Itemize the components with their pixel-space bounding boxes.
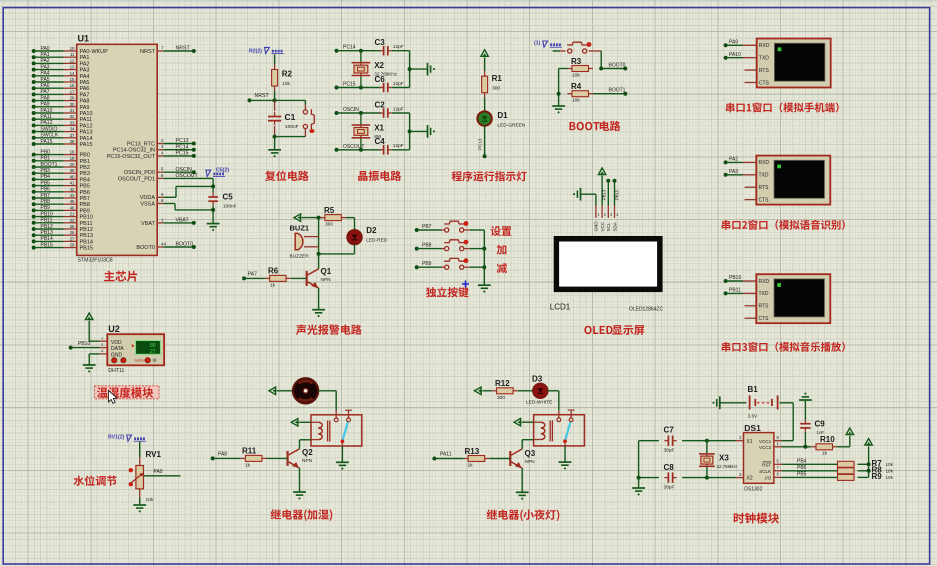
svg-text:PA15: PA15 bbox=[80, 142, 93, 148]
svg-text:PB11: PB11 bbox=[729, 288, 741, 294]
wire rail to ground X2 bbox=[410, 68, 428, 70]
wire terminal to RV1 bbox=[139, 442, 141, 457]
svg-text:STM32F103C8: STM32F103C8 bbox=[78, 258, 113, 264]
capacitor C7 30pF bbox=[639, 425, 744, 453]
svg-text:12pF: 12pF bbox=[393, 81, 404, 87]
node C5(2) blue terminal bbox=[206, 167, 229, 176]
pin SWCLK (37) of U1 bbox=[32, 133, 93, 142]
svg-text:PB6: PB6 bbox=[797, 465, 807, 471]
crystal X2 32.768KHz bbox=[352, 51, 398, 88]
svg-text:SWDIO: SWDIO bbox=[41, 126, 58, 132]
crystal X1 8M bbox=[352, 113, 385, 150]
svg-text:LED-GREEN: LED-GREEN bbox=[497, 123, 526, 129]
svg-text:PB9: PB9 bbox=[422, 261, 432, 267]
wire R10 to power bbox=[837, 436, 850, 447]
pin PC13 (2) of U1 right bbox=[127, 138, 196, 148]
pin labels GND VCC SCL SDA rotated bbox=[594, 221, 618, 232]
svg-text:8: 8 bbox=[161, 198, 164, 203]
pin PA2 (12) of U1 bbox=[32, 58, 90, 67]
label OLED显示屏 bbox=[584, 325, 644, 335]
svg-text:R10: R10 bbox=[820, 435, 835, 444]
svg-text:OSCOUT: OSCOUT bbox=[176, 173, 199, 179]
label 复位电路 bbox=[265, 170, 309, 180]
ground below C5 bbox=[207, 224, 220, 231]
svg-text:(1): (1) bbox=[534, 41, 541, 47]
svg-text:PB7: PB7 bbox=[41, 193, 51, 199]
pin PB6 (42) of U1 bbox=[32, 187, 90, 196]
svg-text:PB15: PB15 bbox=[615, 189, 620, 200]
svg-text:17: 17 bbox=[70, 89, 75, 94]
wire RV1 to ground bbox=[139, 498, 141, 506]
svg-text:PB13: PB13 bbox=[602, 189, 607, 200]
relay RL2 body bbox=[534, 410, 585, 446]
svg-text:CTS: CTS bbox=[759, 316, 770, 322]
motor humidifier symbol bbox=[293, 378, 318, 403]
wire C6 to right rail bbox=[392, 67, 412, 87]
transistor Q2 NPN bbox=[288, 448, 314, 468]
svg-text:10: 10 bbox=[70, 46, 75, 51]
svg-text:13: 13 bbox=[70, 65, 75, 70]
svg-text:29: 29 bbox=[70, 96, 75, 101]
svg-text:RTS: RTS bbox=[759, 185, 770, 191]
buzzer BUZ1 bbox=[290, 218, 319, 260]
wire ground to B1 bbox=[720, 402, 747, 404]
power arrow above R10 bbox=[846, 428, 853, 436]
svg-text:C2: C2 bbox=[375, 100, 386, 109]
svg-text:PA11: PA11 bbox=[41, 114, 53, 120]
svg-text:PA4: PA4 bbox=[41, 71, 50, 77]
power arrow above U2 bbox=[86, 313, 93, 321]
svg-text:C5(2): C5(2) bbox=[216, 167, 229, 173]
svg-text:PB9: PB9 bbox=[41, 205, 51, 211]
svg-text:SWCLK: SWCLK bbox=[41, 133, 59, 139]
svg-text:R12: R12 bbox=[495, 379, 510, 388]
wire OSCOUT row bbox=[337, 148, 382, 152]
svg-text:46: 46 bbox=[70, 205, 75, 210]
svg-text:X1: X1 bbox=[747, 439, 753, 445]
svg-text:NRST: NRST bbox=[255, 93, 270, 99]
svg-text:C8: C8 bbox=[664, 463, 675, 472]
power arrow above R1 bbox=[481, 50, 488, 58]
node PC15 bbox=[335, 82, 356, 90]
pin PA15 (38) of U1 bbox=[32, 139, 93, 148]
svg-text:PB5: PB5 bbox=[80, 184, 90, 190]
pin RTS stub bbox=[745, 186, 757, 188]
svg-text:X1: X1 bbox=[374, 123, 384, 132]
svg-text:RXD: RXD bbox=[759, 279, 770, 285]
svg-text:PA11: PA11 bbox=[80, 117, 93, 123]
svg-text:PA8: PA8 bbox=[80, 99, 90, 105]
resistor R12 300 bbox=[483, 379, 518, 401]
wire Q1 emitter to ground bbox=[318, 288, 320, 310]
svg-text:VCC2: VCC2 bbox=[759, 445, 772, 450]
pin VSSA (8) of U1 bbox=[140, 198, 213, 210]
wire terminal to R2 bbox=[274, 55, 276, 65]
relay RL1 body bbox=[311, 410, 362, 446]
pin OSCOUT (6) of U1 right, wire to C5 node bbox=[118, 173, 213, 183]
svg-text:D1: D1 bbox=[497, 111, 508, 120]
ground above C9 (inverted) bbox=[799, 393, 812, 400]
pin PA9 (30) of U1 bbox=[32, 102, 90, 111]
pin VBAT (1) of U1 right bbox=[141, 217, 196, 227]
node PB7 bbox=[415, 224, 432, 232]
transistor Q3 NPN bbox=[510, 449, 535, 469]
svg-text:PA1: PA1 bbox=[80, 55, 90, 61]
pin PA7 (17) of U1 bbox=[32, 89, 90, 98]
node OSCIN bbox=[335, 107, 360, 115]
svg-text:PB14: PB14 bbox=[80, 239, 93, 245]
svg-text:DS1: DS1 bbox=[744, 423, 761, 433]
svg-text:10k: 10k bbox=[572, 72, 580, 78]
svg-text:C3: C3 bbox=[375, 38, 386, 47]
pin PB5 (41) of U1 bbox=[32, 180, 90, 189]
svg-text:GND: GND bbox=[594, 221, 599, 232]
svg-text:LED-RED: LED-RED bbox=[366, 238, 388, 244]
wire R5 to D2 bbox=[346, 218, 355, 230]
wire terminal to boot button bbox=[553, 50, 561, 52]
svg-text:PB10: PB10 bbox=[78, 341, 90, 347]
wire power to R1 bbox=[484, 58, 486, 71]
svg-text:43: 43 bbox=[70, 193, 75, 198]
node PB9 bbox=[415, 261, 432, 269]
svg-text:PB8: PB8 bbox=[422, 243, 432, 249]
svg-text:PB13: PB13 bbox=[80, 233, 93, 239]
svg-text:28: 28 bbox=[70, 243, 75, 248]
pin PB10 (21) of U1 bbox=[32, 211, 93, 220]
svg-text:Q3: Q3 bbox=[525, 449, 536, 458]
pin OSCIN (5) of U1 right bbox=[124, 167, 196, 177]
pin VDDA (9) of U1 bbox=[140, 186, 213, 201]
transistor Q1 NPN bbox=[307, 267, 332, 288]
svg-text:11: 11 bbox=[70, 52, 75, 57]
wire PB8 to button bbox=[417, 248, 445, 250]
op-amp U1 main chip STM32F103C8 body bbox=[77, 34, 158, 264]
svg-text:RXD: RXD bbox=[759, 43, 770, 49]
button BOOT (horizontal) bbox=[560, 42, 601, 53]
svg-text:19: 19 bbox=[70, 156, 75, 161]
wire power to R5 node bbox=[302, 216, 321, 220]
node NRST bbox=[248, 93, 277, 102]
wire C4 to right rail bbox=[392, 129, 412, 149]
svg-text:PB1: PB1 bbox=[80, 159, 90, 165]
wire left rail of clock bbox=[638, 441, 640, 488]
wire DS1 PB6 row bbox=[774, 465, 837, 471]
ground of buttons bbox=[478, 285, 491, 292]
svg-text:PB10: PB10 bbox=[80, 215, 93, 221]
svg-text:PB15: PB15 bbox=[80, 246, 93, 252]
label 晶振电路 bbox=[358, 171, 401, 181]
wire rail to ground X1 bbox=[410, 130, 428, 132]
svg-text:PC14: PC14 bbox=[343, 45, 356, 51]
node R2(2) blue terminal bbox=[249, 47, 284, 54]
wire button 2 to bus bbox=[464, 247, 486, 251]
pin PB1 (19) of U1 bbox=[32, 156, 90, 165]
svg-text:22: 22 bbox=[70, 218, 75, 223]
node PC14 bbox=[335, 45, 356, 53]
crystal X3 32.768kHz bbox=[699, 441, 738, 478]
node BOOT1 bbox=[593, 88, 627, 96]
diode D2 LED-RED bbox=[347, 226, 387, 244]
svg-text:14: 14 bbox=[70, 71, 75, 76]
svg-text:R13: R13 bbox=[465, 447, 480, 456]
svg-text:C7: C7 bbox=[664, 425, 675, 434]
svg-text:PB3: PB3 bbox=[41, 168, 51, 174]
svg-text:27: 27 bbox=[70, 236, 75, 241]
svg-text:X2: X2 bbox=[374, 61, 384, 70]
svg-text:R1: R1 bbox=[492, 74, 503, 83]
pin TXD wire PA10 bbox=[724, 52, 757, 60]
svg-text:300: 300 bbox=[497, 395, 505, 401]
diode D1 LED-GREEN bbox=[477, 111, 526, 128]
svg-text:R11: R11 bbox=[242, 447, 257, 456]
svg-text:30: 30 bbox=[70, 102, 75, 107]
svg-text:%RH: %RH bbox=[134, 358, 144, 363]
svg-text:NPN: NPN bbox=[302, 458, 313, 464]
svg-text:PC15-OSC32_OUT: PC15-OSC32_OUT bbox=[107, 154, 156, 160]
svg-text:20: 20 bbox=[70, 162, 75, 167]
svg-text:42: 42 bbox=[70, 187, 75, 192]
svg-text:TXD: TXD bbox=[759, 173, 769, 179]
svg-text:32.768kHz: 32.768kHz bbox=[717, 464, 738, 469]
svg-text:PA9: PA9 bbox=[41, 102, 50, 108]
pin PA5 (15) of U1 bbox=[32, 77, 90, 86]
svg-text:10k: 10k bbox=[886, 468, 894, 473]
capacitor C9 1nF bbox=[800, 400, 825, 447]
svg-text:3: 3 bbox=[739, 472, 742, 477]
svg-text:PA7: PA7 bbox=[248, 272, 257, 278]
power arrow left of relay RL2 coil bbox=[514, 419, 522, 426]
pin PB15 (28) of U1 bbox=[32, 242, 93, 251]
cursor mark bbox=[462, 281, 469, 288]
svg-text:VSSA: VSSA bbox=[140, 201, 155, 207]
label 继电器(小夜灯) bbox=[487, 509, 560, 521]
ground right of X2 bbox=[428, 63, 435, 76]
power arrow left of R5 bbox=[294, 214, 302, 221]
svg-text:PA10: PA10 bbox=[729, 52, 741, 58]
pin PA1 (11) of U1 bbox=[32, 52, 90, 61]
wire PB7 to button bbox=[417, 229, 445, 231]
wire PC14 row bbox=[337, 49, 382, 53]
capacitor C4 12pF bbox=[375, 137, 404, 154]
pin RTS stub bbox=[745, 305, 757, 307]
label 主芯片 bbox=[104, 271, 137, 282]
svg-text:PB4: PB4 bbox=[797, 459, 807, 465]
label 串口1窗口 bbox=[726, 102, 839, 112]
pin RXD wire PB10 bbox=[724, 275, 757, 283]
pin PB3 (39) of U1 bbox=[32, 168, 90, 177]
wire power to motor bbox=[277, 390, 293, 392]
svg-text:PA10: PA10 bbox=[41, 108, 53, 114]
svg-text:PA9: PA9 bbox=[729, 40, 738, 46]
pin PA10 (31) of U1 bbox=[32, 108, 93, 117]
svg-text:VCC: VCC bbox=[600, 221, 605, 231]
ground of Q3 bbox=[516, 492, 529, 499]
svg-text:SCL: SCL bbox=[606, 222, 611, 231]
wire DS1 PB5 row bbox=[774, 472, 837, 478]
svg-text:PA15: PA15 bbox=[41, 139, 53, 145]
svg-text:DS1302: DS1302 bbox=[744, 487, 762, 493]
pin RXD wire PA2 bbox=[724, 157, 757, 165]
svg-text:21: 21 bbox=[70, 212, 75, 217]
svg-text:5: 5 bbox=[161, 167, 164, 172]
label 程序运行指示灯 bbox=[452, 171, 527, 181]
svg-text:TXD: TXD bbox=[759, 291, 769, 297]
ground of buzzer circuit bbox=[312, 310, 325, 317]
svg-text:GND: GND bbox=[111, 352, 123, 358]
svg-text:3: 3 bbox=[610, 213, 612, 217]
svg-text:R5: R5 bbox=[324, 206, 335, 215]
svg-text:PA11: PA11 bbox=[440, 452, 452, 458]
wire Q3 collector bbox=[521, 440, 523, 449]
wire DS1 PB4 row bbox=[774, 459, 837, 465]
diode D3 LED-WHITE bbox=[526, 374, 552, 405]
svg-text:NRST: NRST bbox=[140, 49, 156, 55]
svg-text:PB7: PB7 bbox=[80, 196, 90, 202]
svg-text:SDA: SDA bbox=[612, 221, 617, 231]
node PB15 wire to OLED SDA pin bbox=[613, 179, 620, 218]
pin RXD wire PA9 bbox=[724, 40, 757, 48]
ground of reset circuit bbox=[268, 150, 281, 157]
svg-text:Q2: Q2 bbox=[302, 448, 313, 457]
svg-text:PA2: PA2 bbox=[80, 61, 90, 67]
svg-text:OSCIN: OSCIN bbox=[343, 107, 359, 113]
svg-text:Q1: Q1 bbox=[321, 267, 332, 276]
power arrow left of relay RL1 coil bbox=[291, 419, 299, 426]
svg-text:PB0: PB0 bbox=[41, 149, 51, 155]
label 串口2窗口 bbox=[722, 220, 845, 230]
wire B1 to DS1 VCC1 bbox=[774, 403, 793, 441]
svg-text:RTS: RTS bbox=[759, 68, 770, 74]
svg-text:RV1: RV1 bbox=[146, 450, 162, 459]
svg-text:CTS: CTS bbox=[759, 197, 770, 203]
svg-text:PA6: PA6 bbox=[41, 83, 50, 89]
pin PA12 (33) of U1 bbox=[32, 120, 93, 129]
svg-text:X2: X2 bbox=[747, 476, 753, 482]
svg-text:1k: 1k bbox=[822, 451, 828, 457]
wire Q3 emitter to ground bbox=[521, 468, 523, 492]
svg-text:U2: U2 bbox=[108, 324, 120, 334]
sensor U2 DHT11 body bbox=[107, 324, 164, 374]
svg-text:R2(2): R2(2) bbox=[249, 49, 262, 55]
svg-text:PB4: PB4 bbox=[41, 174, 51, 180]
svg-text:NPN: NPN bbox=[525, 459, 536, 465]
svg-text:10k: 10k bbox=[886, 475, 894, 480]
node RV1(2) blue terminal bbox=[108, 434, 146, 441]
svg-text:RXD: RXD bbox=[759, 160, 770, 166]
pin PA11 (32) of U1 bbox=[32, 114, 92, 123]
svg-text:DHT11: DHT11 bbox=[108, 368, 124, 374]
wire OLED GND pin bbox=[581, 194, 600, 218]
svg-text:PC13: PC13 bbox=[478, 138, 483, 150]
capacitor C3 12pF bbox=[375, 38, 404, 55]
resistor R3 10k bbox=[568, 57, 594, 79]
wire R7 to rail bbox=[858, 462, 871, 466]
label 串口3窗口 bbox=[722, 342, 845, 352]
svg-text:PA14: PA14 bbox=[80, 136, 93, 142]
pin PC14 (3) of U1 right bbox=[113, 144, 196, 154]
power arrow left of motor M1 bbox=[269, 387, 277, 394]
wire NRST node to button bbox=[275, 100, 306, 104]
svg-text:7: 7 bbox=[161, 45, 164, 50]
pin PB13 (26) of U1 bbox=[32, 230, 93, 239]
svg-text:B1: B1 bbox=[748, 385, 759, 394]
svg-text:OSCIN: OSCIN bbox=[176, 167, 193, 173]
pin TXD wire PA3 bbox=[724, 169, 757, 177]
wire power to RL2 coil bbox=[522, 421, 534, 423]
svg-text:PC14-OSC32_IN: PC14-OSC32_IN bbox=[113, 148, 155, 154]
capacitor C2 12pF bbox=[375, 100, 404, 117]
capacitor C1 100nF bbox=[268, 100, 299, 136]
wire Q2 collector bbox=[299, 440, 301, 449]
wire C1 bottom junction bbox=[273, 135, 306, 150]
pin PB0 (18) of U1 bbox=[32, 149, 90, 158]
svg-text:VCC1: VCC1 bbox=[759, 439, 772, 444]
svg-text:45: 45 bbox=[70, 199, 75, 204]
svg-text:R9: R9 bbox=[872, 472, 883, 481]
svg-text:PB11: PB11 bbox=[41, 218, 53, 224]
svg-text:BUZ1: BUZ1 bbox=[290, 224, 310, 233]
svg-text:10k: 10k bbox=[886, 462, 894, 467]
svg-text:PA9: PA9 bbox=[80, 105, 90, 111]
svg-text:PA0: PA0 bbox=[41, 46, 50, 52]
svg-text:PB3: PB3 bbox=[80, 171, 90, 177]
wire motor to relay RL1 contact bbox=[318, 391, 336, 410]
svg-text:BOOT0: BOOT0 bbox=[176, 242, 194, 248]
wire R2 to NRST node bbox=[274, 91, 276, 100]
label 时钟模块 bbox=[734, 513, 779, 524]
svg-text:VBAT: VBAT bbox=[141, 221, 156, 227]
svg-text:PB10: PB10 bbox=[41, 211, 53, 217]
svg-text:18: 18 bbox=[70, 150, 75, 155]
node PA8 bbox=[211, 451, 228, 460]
wire power to RL1 coil bbox=[299, 421, 311, 423]
svg-text:NRST: NRST bbox=[176, 46, 191, 52]
pin CTS stub bbox=[745, 317, 757, 319]
pin PB7 (43) of U1 bbox=[32, 193, 90, 202]
svg-text:1: 1 bbox=[598, 213, 600, 217]
ground of boot circuit bbox=[552, 106, 565, 113]
svg-text:PC14: PC14 bbox=[176, 144, 189, 150]
svg-text:PA3: PA3 bbox=[80, 68, 90, 74]
button RESET (vertical) bbox=[303, 105, 314, 137]
svg-text:30pF: 30pF bbox=[664, 448, 675, 454]
svg-text:32: 32 bbox=[70, 114, 75, 119]
node (1) blue terminal of boot button bbox=[534, 41, 562, 48]
label BOOT电路 bbox=[570, 121, 621, 131]
button KEY3 bbox=[444, 258, 468, 269]
svg-text:RV1(2): RV1(2) bbox=[108, 434, 125, 440]
svg-text:PA2: PA2 bbox=[41, 58, 50, 64]
svg-text:LED-WHITE: LED-WHITE bbox=[526, 400, 552, 406]
node PA7 bbox=[242, 272, 257, 281]
resistor R1 300 bbox=[482, 71, 503, 98]
svg-text:PB6: PB6 bbox=[80, 190, 90, 196]
svg-text:PB4: PB4 bbox=[80, 177, 90, 183]
svg-text:PB9: PB9 bbox=[80, 208, 90, 214]
svg-text:LCD1: LCD1 bbox=[550, 303, 571, 312]
resistor R10 1k bbox=[812, 435, 838, 457]
pin PB8 (45) of U1 bbox=[32, 199, 90, 208]
svg-text:C1: C1 bbox=[285, 112, 296, 122]
pin RTS stub bbox=[745, 69, 757, 71]
svg-text:R2: R2 bbox=[282, 70, 293, 79]
node PB10 wire to U2 DATA bbox=[69, 341, 108, 349]
label 继电器(加湿) bbox=[271, 509, 333, 521]
svg-text:10k: 10k bbox=[282, 81, 290, 87]
button KEY1 bbox=[444, 221, 468, 232]
label 减 bbox=[497, 263, 507, 273]
svg-text:33: 33 bbox=[70, 120, 75, 125]
